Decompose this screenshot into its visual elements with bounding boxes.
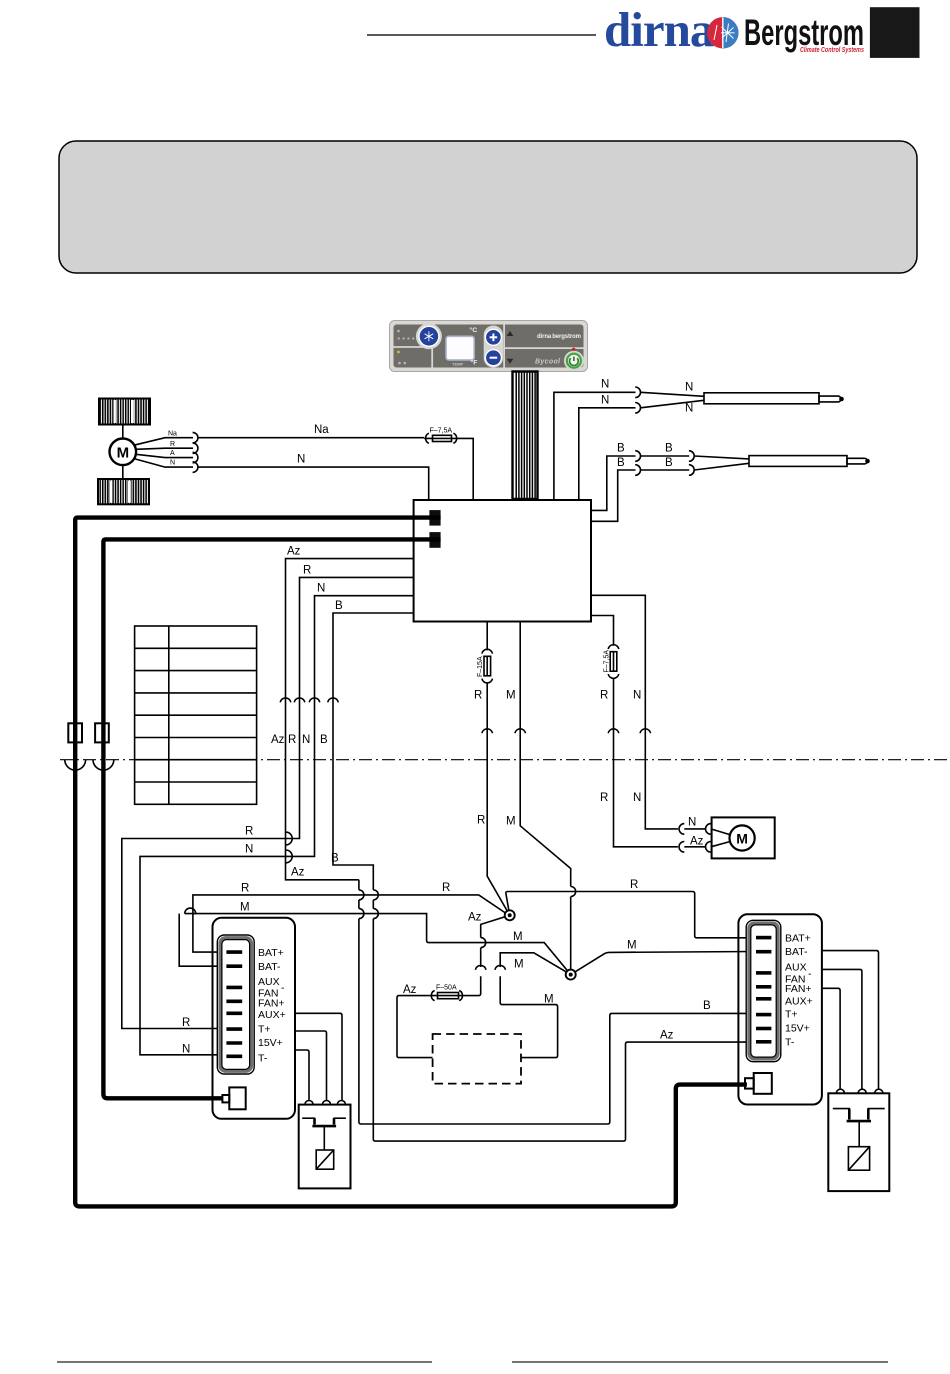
motor M2 [730,825,755,850]
triangle up [507,331,514,336]
svg-text:Na: Na [314,424,329,436]
panel divider left vertical [431,325,433,368]
svg-text:Az: Az [690,836,704,848]
svg-text:T-: T- [785,1037,795,1049]
header black square [870,7,920,58]
svg-text:R: R [241,882,249,894]
Az connector arc [475,965,486,969]
thick battery cable 1 [75,518,747,1207]
svg-text:M: M [506,815,516,827]
svg-text:R: R [442,882,450,894]
svg-text:FAN+: FAN+ [785,983,812,995]
R connector arc [482,729,493,733]
wire Az fuse to clutch [397,996,433,1058]
svg-text:R: R [288,734,296,746]
fuse F2 F-15A [482,649,493,683]
svg-text:R: R [477,815,485,827]
wire M evaporator [520,622,571,975]
condenser connector block outer [738,914,822,1104]
snowflake button bezel [416,323,442,349]
svg-text:BAT+: BAT+ [258,947,284,959]
svg-text:T+: T+ [258,1024,271,1036]
svg-text:TEMP: TEMP [452,362,463,367]
wire M to BAT- left [179,914,571,975]
relay table [135,626,257,804]
panel divider right horizontal [504,347,583,349]
blower motor M1 resistor block bottom [98,479,149,504]
wire R bundle [122,577,414,1028]
B bundle hop arcs [373,890,378,900]
svg-text:B: B [665,443,673,455]
panel led yellow [397,351,400,354]
cable 1 grommet arc [65,760,86,770]
Az hop arc over M wire [481,938,486,948]
svg-text:M: M [627,940,637,952]
condenser motor M2 box [712,817,775,858]
wire N condenser [591,595,678,829]
condenser pin labels [785,932,813,1048]
grey rounded note box [59,141,917,273]
M1 fan-out wires [134,438,193,467]
control unit box U1 [414,500,591,622]
condenser plug tab [745,1078,754,1088]
svg-text:dirna bergstrom: dirna bergstrom [537,334,581,340]
fuse F4 F-50A [430,991,464,1001]
Az branch to right vertical [359,880,756,1124]
svg-text:R: R [170,441,175,448]
relay K1 box [299,1105,351,1189]
wire B mid segments [641,455,690,457]
svg-text:B: B [617,457,625,469]
wire Az bundle [286,559,414,880]
svg-text:R: R [182,1017,190,1029]
R condenser connector arc [608,729,619,733]
fuse F3 F-7,5A [608,645,619,679]
junction J2 [566,970,576,980]
relay K1 contact [302,1118,346,1150]
wire N from M1 to U1 [198,467,429,500]
header rule [367,34,596,36]
R bundle connector arc vertical [294,698,305,702]
ribbon cable [513,372,538,500]
svg-text:Az: Az [403,984,417,996]
svg-text:AUX: AUX [258,976,280,988]
panel leds top-left [397,330,414,340]
panel divider mid vertical [503,325,505,368]
wire B bundle [333,613,756,1141]
wire R J1 to right block [506,892,756,938]
svg-text:R: R [474,690,482,702]
condenser connector inner frame [746,920,781,1061]
svg-text:F–7,5A: F–7,5A [430,427,453,434]
condenser plug square [754,1073,772,1094]
N bundle connector arc vertical [309,698,320,702]
compressor clutch dashed box [433,1034,521,1084]
junction J1 [505,910,515,920]
svg-text:Az: Az [291,867,305,879]
relay K1 terminal bumps [305,1100,346,1104]
B bundle connector arc [328,698,339,702]
svg-text:T-: T- [258,1052,268,1064]
svg-text:B: B [320,734,328,746]
svg-text:N: N [245,843,253,855]
M clutch connector arc [495,965,506,969]
svg-text:dirna: dirna [604,2,714,57]
footer rule left [57,1361,432,1363]
svg-text:B: B [617,443,625,455]
svg-text:B: B [335,600,343,612]
B sensor arcs second pair [689,451,694,462]
evaporator wires to relay K1 [295,1013,342,1100]
wire R evaporator [487,622,510,915]
logo circle [707,17,738,48]
svg-text:BAT-: BAT- [785,946,808,958]
snowflake button [419,326,439,346]
wire B sensor 2 [591,470,636,521]
wire R condenser [591,616,678,847]
evaporator pins [226,952,242,1056]
svg-text:N: N [633,792,641,804]
wire Na fuse to U1 [458,438,473,500]
evaporator connector block outer [213,918,296,1119]
M2 wires into motor [711,829,730,847]
svg-text:N: N [317,583,325,595]
Az connector arc [280,698,291,702]
svg-text:15V+: 15V+ [785,1023,810,1035]
cable 2 grommet arc [93,760,114,770]
N condenser connector arc [640,729,651,733]
B sensor arcs first pair [635,451,640,462]
R bundle corner arc [286,832,292,845]
svg-text:M: M [544,993,554,1005]
svg-text:B: B [703,1000,711,1012]
condenser wires to relay K2 [822,951,879,1090]
svg-text:N: N [633,690,641,702]
N temperature probe [641,392,841,408]
svg-text:R: R [303,564,311,576]
svg-text:M: M [514,959,524,971]
svg-text:B: B [665,457,673,469]
cable 1 bulkhead connector [68,723,82,742]
svg-text:Az: Az [287,546,301,558]
triangle down [507,359,514,364]
svg-text:N: N [297,453,305,465]
svg-text:Climate Control Systems: Climate Control Systems [800,45,864,54]
B temperature probe [694,456,867,470]
relay K1 coil [316,1150,334,1169]
svg-text:F–50A: F–50A [436,985,457,992]
wire Na to fuse [198,437,424,439]
svg-text:F–7,5A: F–7,5A [604,650,611,673]
relay K2 terminal bumps [836,1089,883,1093]
svg-text:15V+: 15V+ [258,1037,283,1049]
N bundle corner arc [286,850,292,863]
svg-text:N: N [302,734,310,746]
svg-text:FAN+: FAN+ [258,997,285,1009]
footer rule right [512,1361,888,1363]
evaporator connector inner frame [217,935,254,1074]
svg-text:M: M [240,901,250,913]
motor M1 [110,439,137,466]
svg-text:°C: °C [470,326,478,334]
cable 2 bulkhead connector [95,723,109,742]
relay K2 box [828,1093,889,1191]
svg-text:R: R [630,879,638,891]
svg-text:AUX+: AUX+ [258,1009,286,1021]
plus button [485,329,501,345]
svg-text:A: A [170,450,175,457]
svg-text:-: - [808,968,812,980]
wire N sensor 2 [579,408,636,500]
fuse F1 F-7,5A [424,427,458,443]
panel divider left horizontal [394,346,433,348]
svg-text:Na: Na [168,430,177,437]
wire M J2 branch to clutch [500,953,571,1058]
svg-text:Az: Az [660,1030,674,1042]
svg-text:F–15A: F–15A [477,656,484,677]
Az branch hop arcs [359,890,364,900]
svg-text:Az: Az [271,734,285,746]
svg-text:-: - [281,982,285,994]
LCD display [446,336,474,360]
svg-text:M: M [506,690,516,702]
svg-text:N: N [688,817,696,829]
U1 connector pad 2 [429,532,440,548]
M hop arc over R vertical [185,908,196,914]
wire M1 to blocks [122,425,124,439]
svg-text:N: N [182,1044,190,1056]
wire Az J1 to fuse [464,915,510,995]
relay K2 contact [833,1109,885,1147]
thick battery cable 2 [103,539,440,1098]
evaporator plug tab [222,1095,229,1102]
relay K2 coil [848,1147,869,1171]
svg-text:N: N [601,379,609,391]
svg-text:R: R [600,792,608,804]
svg-text:Bycool: Bycool [535,359,561,366]
svg-text:T+: T+ [785,1008,798,1020]
M1 connector arcs [193,432,198,472]
svg-text:N: N [685,382,693,394]
blower motor M1 resistor block top [99,399,150,425]
svg-text:°F: °F [471,359,478,367]
svg-text:N: N [601,395,609,407]
wire N sensor 1 [554,392,636,500]
minus button [485,350,501,366]
wire M J2 to right block [571,952,756,975]
control panel face [394,325,584,368]
power button [564,351,584,371]
svg-text:M: M [736,831,748,847]
chassis dash-dot line [60,759,950,761]
svg-text:M: M [513,931,523,943]
power led red [572,348,575,351]
svg-text:Az: Az [468,912,482,924]
svg-text:B: B [331,853,339,865]
svg-text:M: M [117,445,130,462]
svg-text:AUX: AUX [785,962,807,974]
evaporator pin labels [258,947,286,1064]
condenser pins [756,938,771,1042]
svg-text:BAT-: BAT- [258,961,281,973]
svg-text:R: R [245,826,253,838]
condenser connector arcs N [679,824,684,835]
M connector arc [515,729,526,733]
wire R to BAT+ left [193,895,506,952]
wire B sensor 1 [591,456,636,510]
evaporator plug square [229,1087,245,1109]
U1 connector pad 1 [429,510,440,525]
svg-text:N: N [170,460,175,467]
svg-text:N: N [685,403,693,415]
M hop arc [571,887,576,897]
svg-text:BAT+: BAT+ [785,932,811,944]
svg-text:AUX+: AUX+ [785,995,813,1007]
wire N bundle [140,596,414,1055]
buttons pill [484,326,503,368]
condenser connector arcs Az [679,842,684,853]
control panel bezel [390,321,588,372]
panel snow icons bottom-left [398,362,401,365]
N sensor connector arcs [635,387,640,398]
svg-text:R: R [600,690,608,702]
